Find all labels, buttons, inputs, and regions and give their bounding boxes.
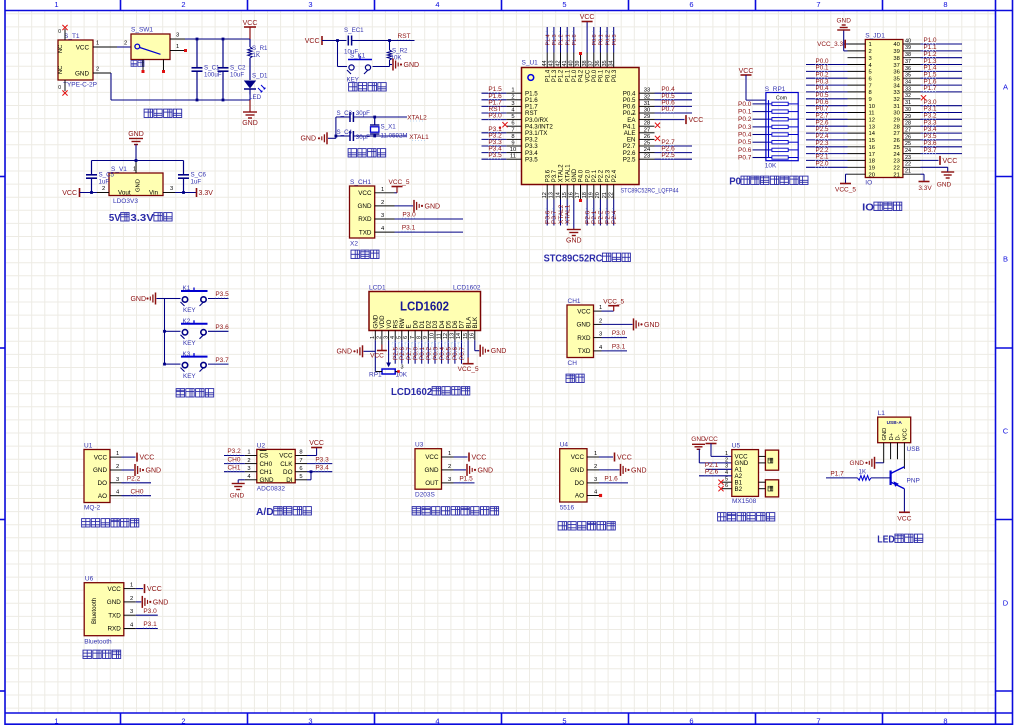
svg-text:37: 37 [893, 63, 899, 69]
svg-text:15: 15 [562, 192, 568, 198]
svg-text:13: 13 [869, 124, 875, 130]
svg-text:1K: 1K [859, 469, 867, 476]
svg-text:5: 5 [869, 70, 872, 76]
svg-text:P0.3: P0.3 [738, 124, 752, 131]
svg-text:B2: B2 [735, 486, 743, 493]
svg-text:12: 12 [443, 333, 449, 339]
svg-text:33: 33 [905, 86, 911, 92]
svg-text:AO: AO [575, 493, 584, 500]
svg-text:P0.2: P0.2 [605, 69, 611, 82]
svg-text:S_D1: S_D1 [252, 73, 268, 80]
svg-text:42: 42 [555, 60, 561, 66]
svg-text:19: 19 [869, 166, 875, 172]
svg-text:7: 7 [410, 336, 416, 339]
svg-text:33: 33 [644, 88, 650, 94]
svg-text:6: 6 [299, 466, 302, 472]
svg-text:VCC: VCC [305, 38, 320, 45]
svg-text:9: 9 [869, 97, 872, 103]
svg-text:43: 43 [549, 60, 555, 66]
svg-text:LCD1602: LCD1602 [453, 285, 481, 292]
svg-text:USB: USB [907, 446, 920, 453]
svg-text:2: 2 [594, 464, 597, 470]
svg-text:33: 33 [893, 90, 899, 96]
svg-text:P1.6: P1.6 [604, 476, 618, 483]
svg-text:39: 39 [575, 60, 581, 66]
svg-text:18: 18 [869, 159, 875, 165]
svg-text:3: 3 [381, 213, 384, 219]
svg-text:GND: GND [566, 238, 582, 245]
svg-text:P2.2: P2.2 [127, 476, 141, 483]
svg-text:13: 13 [450, 333, 456, 339]
svg-text:VCC: VCC [425, 454, 439, 461]
svg-text:27: 27 [644, 127, 650, 133]
svg-text:7: 7 [816, 0, 820, 9]
svg-text:VCC: VCC [243, 20, 258, 27]
svg-text:3: 3 [594, 477, 597, 483]
svg-text:27: 27 [905, 128, 911, 134]
svg-text:1: 1 [176, 44, 179, 50]
svg-text:S_X1: S_X1 [381, 124, 397, 131]
svg-text:20: 20 [869, 172, 875, 178]
svg-text:30pF: 30pF [356, 134, 370, 141]
svg-text:3: 3 [308, 716, 312, 725]
svg-text:8: 8 [943, 0, 947, 9]
svg-text:CS: CS [260, 453, 269, 460]
svg-text:20: 20 [595, 192, 601, 198]
svg-text:4: 4 [435, 0, 439, 9]
svg-text:11: 11 [510, 154, 516, 160]
svg-text:40: 40 [569, 60, 575, 66]
svg-text:1: 1 [511, 88, 514, 94]
svg-text:23: 23 [644, 154, 650, 160]
svg-text:P2.6: P2.6 [705, 469, 719, 476]
svg-text:VCC_3.3: VCC_3.3 [817, 41, 843, 48]
svg-text:RXD: RXD [358, 216, 372, 223]
svg-text:CH0: CH0 [227, 456, 240, 463]
svg-text:U1: U1 [84, 443, 93, 450]
svg-text:6: 6 [403, 336, 409, 339]
svg-text:GND: GND [572, 168, 578, 182]
svg-text:RXD: RXD [108, 626, 122, 633]
svg-text:26: 26 [905, 134, 911, 140]
svg-text:3: 3 [599, 332, 602, 338]
svg-text:3: 3 [247, 466, 250, 472]
svg-text:RST: RST [398, 33, 411, 40]
svg-text:D-: D- [896, 434, 902, 440]
svg-text:P1.7: P1.7 [830, 470, 844, 477]
svg-text:GND: GND [358, 203, 372, 210]
svg-text:31: 31 [893, 104, 899, 110]
svg-text:P1.4: P1.4 [545, 69, 551, 82]
svg-text:6: 6 [869, 77, 872, 83]
svg-text:S_R2: S_R2 [392, 48, 408, 55]
svg-text:29: 29 [893, 118, 899, 124]
svg-text:36: 36 [893, 70, 899, 76]
svg-text:VCC_5: VCC_5 [603, 298, 624, 305]
svg-text:P0.7: P0.7 [661, 106, 675, 113]
svg-text:32: 32 [893, 97, 899, 103]
svg-text:DO: DO [575, 480, 585, 487]
svg-text:S_EC1: S_EC1 [344, 27, 364, 34]
svg-text:VCC: VCC [370, 353, 384, 360]
svg-text:30: 30 [905, 107, 911, 113]
svg-text:LCD1602: LCD1602 [391, 386, 432, 398]
svg-text:4: 4 [390, 336, 396, 339]
svg-text:P3.6: P3.6 [545, 169, 551, 182]
svg-text:30: 30 [644, 108, 650, 114]
svg-text:3: 3 [383, 336, 389, 339]
svg-text:21: 21 [905, 169, 911, 175]
svg-text:P2.1: P2.1 [592, 169, 598, 182]
svg-text:2: 2 [448, 464, 451, 470]
svg-text:8: 8 [869, 90, 872, 96]
svg-text:GND: GND [75, 71, 89, 78]
svg-text:U6: U6 [85, 576, 94, 583]
svg-text:P3.0: P3.0 [612, 330, 626, 337]
svg-text:VCC: VCC [108, 586, 122, 593]
svg-text:3: 3 [308, 0, 312, 9]
svg-text:P1.7: P1.7 [924, 85, 937, 92]
svg-text:P0.5: P0.5 [738, 139, 752, 146]
svg-text:15: 15 [869, 138, 875, 144]
svg-text:40: 40 [893, 42, 899, 48]
svg-text:A: A [1003, 83, 1008, 92]
svg-text:GND: GND [478, 467, 494, 474]
svg-text:XTAL1: XTAL1 [565, 164, 571, 183]
svg-text:P0.1: P0.1 [738, 109, 752, 116]
svg-text:P0.2: P0.2 [738, 116, 752, 123]
svg-text:25: 25 [644, 141, 650, 147]
svg-text:3: 3 [176, 33, 179, 39]
svg-text:22: 22 [609, 192, 615, 198]
svg-text:P2.4: P2.4 [611, 210, 618, 224]
svg-text:MX1508: MX1508 [732, 498, 757, 505]
svg-text:VCC: VCC [472, 454, 487, 461]
svg-text:14: 14 [869, 131, 876, 137]
svg-text:VCC: VCC [571, 454, 585, 461]
svg-text:KEY: KEY [183, 307, 196, 314]
svg-text:VCC_5: VCC_5 [458, 366, 479, 373]
svg-text:CH1: CH1 [227, 464, 240, 471]
svg-text:D203S: D203S [415, 492, 436, 499]
svg-text:2: 2 [181, 716, 185, 725]
svg-text:2: 2 [96, 67, 99, 73]
svg-text:GND: GND [260, 477, 274, 484]
svg-text:29: 29 [905, 114, 911, 120]
svg-text:S_RP1: S_RP1 [765, 86, 786, 93]
svg-text:VCC_5: VCC_5 [835, 187, 856, 194]
svg-text:6: 6 [689, 716, 693, 725]
svg-text:NC: NC [58, 45, 64, 53]
svg-text:38: 38 [582, 60, 588, 66]
svg-text:P2.3: P2.3 [605, 169, 611, 182]
svg-text:VCC: VCC [577, 308, 591, 315]
svg-text:2: 2 [116, 464, 119, 470]
svg-text:P2.2: P2.2 [599, 169, 605, 182]
svg-text:S_C5: S_C5 [99, 172, 115, 179]
svg-text:S_T1: S_T1 [64, 33, 80, 40]
svg-text:30: 30 [893, 111, 899, 117]
svg-text:16: 16 [469, 333, 475, 339]
svg-text:31: 31 [905, 100, 911, 106]
svg-text:5V: 5V [109, 212, 121, 224]
svg-text:41: 41 [562, 60, 568, 66]
svg-text:GND: GND [93, 467, 107, 474]
svg-text:9: 9 [511, 141, 514, 147]
svg-text:2: 2 [869, 49, 872, 55]
svg-text:3.3V: 3.3V [130, 212, 154, 224]
svg-text:Vin: Vin [149, 189, 158, 196]
svg-text:BLK: BLK [472, 316, 479, 329]
svg-text:7: 7 [869, 83, 872, 89]
svg-text:2: 2 [102, 186, 105, 192]
svg-text:P3.4: P3.4 [315, 464, 329, 471]
svg-text:VCC: VCC [309, 440, 324, 447]
svg-text:37: 37 [589, 60, 595, 66]
svg-text:0: 0 [58, 29, 61, 35]
svg-text:1uF: 1uF [99, 179, 110, 186]
svg-text:1: 1 [116, 451, 119, 457]
svg-text:U5: U5 [732, 443, 741, 450]
svg-text:GND: GND [136, 179, 142, 192]
svg-text:P0.3: P0.3 [612, 69, 618, 82]
svg-text:Bluetooth: Bluetooth [84, 639, 112, 646]
svg-text:P3.6: P3.6 [215, 324, 229, 331]
svg-text:VCC: VCC [147, 586, 162, 593]
svg-text:S_SW1: S_SW1 [131, 27, 153, 34]
svg-text:1: 1 [599, 305, 602, 311]
svg-text:8: 8 [416, 336, 422, 339]
svg-text:5: 5 [299, 474, 302, 480]
svg-text:P3.1: P3.1 [612, 343, 626, 350]
svg-text:35: 35 [602, 60, 608, 66]
svg-text:9: 9 [423, 336, 429, 339]
svg-text:12: 12 [869, 118, 875, 124]
svg-text:1: 1 [448, 451, 451, 457]
svg-text:1: 1 [594, 451, 597, 457]
svg-text:29: 29 [644, 114, 650, 120]
svg-text:TYPE-C-2P: TYPE-C-2P [63, 82, 97, 89]
svg-text:P2.0: P2.0 [585, 169, 591, 182]
svg-text:L1: L1 [878, 410, 886, 417]
svg-text:CH1: CH1 [260, 469, 273, 476]
svg-text:GND: GND [631, 467, 647, 474]
svg-text:2: 2 [130, 596, 133, 602]
svg-text:GND: GND [300, 136, 316, 143]
svg-text:36: 36 [595, 60, 601, 66]
svg-text:RP1: RP1 [369, 372, 382, 379]
svg-text:VCC: VCC [739, 68, 754, 75]
svg-text:ADC0832: ADC0832 [257, 485, 286, 492]
svg-text:8: 8 [943, 716, 947, 725]
svg-text:XTAL1: XTAL1 [409, 134, 429, 141]
svg-text:32: 32 [644, 94, 650, 100]
svg-text:Vout: Vout [118, 189, 131, 196]
svg-text:11.0592M: 11.0592M [381, 133, 408, 140]
svg-text:17: 17 [869, 152, 875, 158]
svg-text:7: 7 [299, 458, 302, 464]
svg-text:P2.4: P2.4 [612, 169, 618, 182]
svg-text:P3.0: P3.0 [143, 608, 157, 615]
svg-text:16: 16 [869, 145, 875, 151]
svg-text:IO: IO [865, 180, 872, 187]
svg-text:XTAL2: XTAL2 [559, 164, 565, 183]
svg-text:S_U1: S_U1 [522, 60, 539, 67]
svg-text:7: 7 [511, 127, 514, 133]
svg-text:3: 3 [130, 609, 133, 615]
svg-text:P3.5: P3.5 [215, 291, 229, 298]
svg-text:3.3V: 3.3V [918, 185, 932, 192]
svg-text:3: 3 [511, 101, 514, 107]
svg-text:STC89C52RC: STC89C52RC [544, 253, 603, 265]
svg-text:10: 10 [869, 104, 875, 110]
svg-text:P1.3: P1.3 [552, 69, 558, 82]
svg-text:2: 2 [725, 457, 728, 463]
svg-text:P3.7: P3.7 [215, 357, 229, 364]
svg-text:34: 34 [893, 83, 900, 89]
svg-text:31: 31 [644, 101, 650, 107]
svg-text:P2.0: P2.0 [816, 161, 829, 168]
svg-text:D: D [1003, 599, 1009, 608]
svg-text:GND: GND [404, 62, 420, 69]
svg-text:5: 5 [562, 0, 566, 9]
svg-text:22: 22 [905, 162, 911, 168]
svg-text:38: 38 [893, 56, 899, 62]
svg-text:P3.0: P3.0 [488, 113, 502, 120]
svg-text:1: 1 [130, 583, 133, 589]
svg-text:S_K1: S_K1 [350, 53, 366, 60]
svg-text:25: 25 [893, 145, 899, 151]
svg-text:5: 5 [397, 336, 403, 339]
svg-text:P3.2: P3.2 [227, 448, 241, 455]
svg-text:36: 36 [905, 66, 911, 72]
svg-text:10K: 10K [396, 372, 408, 379]
svg-text:VCC: VCC [62, 190, 77, 197]
svg-text:8: 8 [299, 450, 302, 456]
svg-text:3: 3 [116, 477, 119, 483]
svg-text:P2.5: P2.5 [661, 152, 675, 159]
svg-text:VCC: VCC [358, 190, 372, 197]
svg-text:CH0: CH0 [260, 461, 273, 468]
svg-text:19: 19 [589, 192, 595, 198]
svg-text:15: 15 [463, 333, 469, 339]
svg-text:Com: Com [776, 95, 787, 101]
svg-text:VCC: VCC [585, 69, 591, 82]
svg-text:D+: D+ [889, 432, 895, 440]
svg-text:30pF: 30pF [356, 110, 370, 117]
svg-text:MQ-2: MQ-2 [84, 505, 101, 512]
svg-text:4: 4 [435, 716, 439, 725]
svg-text:DI: DI [286, 477, 293, 484]
svg-text:B: B [1003, 255, 1008, 264]
svg-text:23: 23 [893, 159, 899, 165]
svg-text:21: 21 [602, 192, 608, 198]
svg-text:P0.7: P0.7 [738, 155, 752, 162]
svg-text:P1.1: P1.1 [565, 69, 571, 82]
svg-text:1: 1 [54, 0, 58, 9]
svg-text:2: 2 [181, 0, 185, 9]
svg-text:28: 28 [644, 121, 650, 127]
svg-text:GND: GND [230, 493, 245, 500]
svg-text:Bluetooth: Bluetooth [91, 597, 98, 624]
svg-text:2: 2 [247, 458, 250, 464]
svg-text:1: 1 [54, 716, 58, 725]
svg-text:39: 39 [905, 45, 911, 51]
svg-text:27: 27 [893, 131, 899, 137]
svg-text:28: 28 [905, 121, 911, 127]
svg-text:1K: 1K [253, 52, 261, 59]
svg-text:7: 7 [816, 716, 820, 725]
svg-text:11: 11 [869, 111, 875, 117]
svg-text:CH1: CH1 [568, 298, 581, 305]
svg-text:2: 2 [381, 200, 384, 206]
svg-text:11: 11 [436, 333, 442, 339]
svg-text:17: 17 [575, 192, 581, 198]
svg-text:VCC: VCC [897, 516, 911, 523]
svg-text:34: 34 [905, 80, 911, 86]
svg-text:VCC: VCC [580, 14, 595, 21]
svg-text:5: 5 [511, 114, 514, 120]
svg-text:35: 35 [905, 73, 911, 79]
svg-text:12: 12 [542, 192, 548, 198]
svg-text:A/D: A/D [256, 506, 274, 518]
svg-text:1: 1 [370, 336, 376, 339]
svg-text:GND: GND [242, 120, 258, 127]
svg-text:26: 26 [893, 138, 899, 144]
svg-text:1: 1 [725, 451, 728, 457]
svg-text:P0.1: P0.1 [599, 69, 605, 82]
svg-text:1: 1 [247, 450, 250, 456]
svg-text:TXD: TXD [108, 612, 121, 619]
svg-text:P3.7: P3.7 [552, 169, 558, 182]
svg-text:U2: U2 [257, 442, 266, 449]
svg-text:1uF: 1uF [191, 179, 202, 186]
svg-text:X2: X2 [350, 241, 358, 248]
svg-text:VCC: VCC [943, 158, 958, 165]
svg-text:1: 1 [96, 41, 99, 47]
svg-text:TXD: TXD [359, 229, 372, 236]
svg-text:VCC_5: VCC_5 [389, 179, 410, 186]
svg-text:LED: LED [249, 94, 262, 101]
svg-text:P1.2: P1.2 [559, 69, 565, 82]
svg-text:GND: GND [425, 203, 441, 210]
svg-text:32: 32 [905, 93, 911, 99]
svg-text:26: 26 [644, 134, 650, 140]
svg-text:3: 3 [869, 56, 872, 62]
svg-text:13: 13 [549, 192, 555, 198]
svg-text:IO: IO [862, 202, 874, 214]
svg-text:35: 35 [893, 77, 899, 83]
svg-text:34: 34 [609, 60, 615, 66]
svg-text:2: 2 [599, 318, 602, 324]
svg-text:GND: GND [882, 428, 888, 441]
svg-text:P0.6: P0.6 [738, 147, 752, 154]
svg-text:P3.1: P3.1 [143, 621, 157, 628]
svg-text:1: 1 [381, 187, 384, 193]
svg-text:44: 44 [542, 60, 548, 66]
svg-text:GND: GND [577, 322, 591, 329]
svg-text:GND: GND [336, 349, 352, 356]
svg-text:0: 0 [58, 85, 61, 91]
svg-text:P4.2: P4.2 [579, 69, 585, 82]
svg-text:PNP: PNP [907, 478, 920, 485]
svg-text:37: 37 [905, 59, 911, 65]
svg-text:P2.5: P2.5 [623, 156, 636, 163]
svg-text:18: 18 [582, 192, 588, 198]
svg-text:10: 10 [510, 147, 516, 153]
svg-text:23: 23 [905, 155, 911, 161]
svg-text:25: 25 [905, 141, 911, 147]
